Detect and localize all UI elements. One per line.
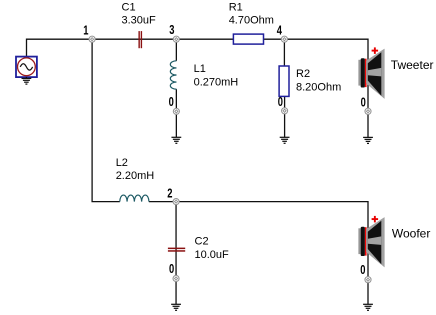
svg-text:Tweeter: Tweeter — [391, 58, 434, 72]
node 0 junction under L1 — [173, 108, 179, 114]
wire node 4 down to R2 — [283, 39, 285, 66]
wire node 3 down to L1 — [175, 39, 177, 61]
wire node 2 to woofer to ground — [176, 202, 368, 305]
node 1 junction — [89, 36, 95, 42]
resistor R2 — [279, 66, 289, 96]
svg-text:0: 0 — [278, 96, 283, 110]
node 3 junction — [173, 36, 179, 42]
svg-text:0: 0 — [360, 264, 365, 278]
node 0 junction under Tweeter — [365, 108, 371, 114]
svg-text:3: 3 — [169, 24, 174, 38]
svg-text:0: 0 — [361, 96, 366, 110]
ground under R2 — [280, 137, 290, 143]
speaker Tweeter — [358, 47, 384, 99]
svg-text:C1: C1 — [122, 1, 136, 13]
C1 value label — [122, 1, 157, 26]
capacitor C2 — [168, 248, 185, 252]
node 2 junction — [173, 199, 179, 205]
svg-text:10.0uF: 10.0uF — [195, 249, 230, 261]
L2 value label — [116, 157, 155, 182]
svg-text:0: 0 — [169, 263, 174, 277]
svg-text:C2: C2 — [195, 236, 209, 248]
wire node 3 to node 4 — [176, 38, 284, 40]
svg-text:Woofer: Woofer — [392, 227, 430, 241]
wire node 4 to tweeter to ground — [284, 39, 368, 137]
wire node 1 down to L2 — [92, 39, 120, 201]
svg-text:2: 2 — [167, 187, 172, 201]
svg-text:L2: L2 — [116, 157, 128, 169]
wire node 1 to node 3 — [92, 38, 176, 40]
ground (source) — [22, 77, 32, 84]
ground under C2 — [171, 304, 181, 310]
wire node 2 to C2 to ground — [175, 202, 177, 305]
svg-text:4: 4 — [277, 24, 283, 38]
node 0 junction under R2 — [282, 108, 288, 114]
svg-text:L1: L1 — [194, 63, 206, 75]
svg-text:8.20Ohm: 8.20Ohm — [296, 82, 341, 94]
node 0 junction under C2 — [173, 275, 179, 281]
svg-text:R2: R2 — [296, 68, 310, 80]
inductor L2 — [120, 195, 149, 202]
svg-text:4.70Ohm: 4.70Ohm — [229, 15, 274, 27]
ground under Woofer — [363, 304, 373, 310]
speaker Woofer — [358, 216, 384, 268]
svg-text:0.270mH: 0.270mH — [194, 76, 239, 88]
R2 value label — [296, 68, 341, 93]
capacitor C1 — [138, 31, 142, 48]
ground under Tweeter — [363, 137, 373, 143]
node 4 junction — [281, 36, 287, 42]
node 0 junction under Woofer — [365, 277, 371, 283]
C2 value label — [195, 236, 230, 261]
wire L1 to ground — [175, 89, 177, 137]
svg-text:3.30uF: 3.30uF — [122, 15, 157, 27]
L1 value label — [194, 63, 239, 88]
svg-text:1: 1 — [83, 25, 88, 39]
R1 value label — [229, 1, 274, 26]
svg-text:R1: R1 — [229, 1, 243, 13]
svg-text:2.20mH: 2.20mH — [116, 170, 155, 182]
resistor R1 — [233, 34, 263, 44]
ground under L1 — [171, 137, 181, 143]
wire R2 to ground — [284, 96, 286, 137]
wire L2 to node 2 — [149, 201, 176, 203]
svg-text:0: 0 — [169, 96, 174, 110]
wire source to node 1 — [27, 39, 93, 57]
inductor L1 — [170, 61, 176, 89]
voltage source V1 — [16, 57, 37, 78]
